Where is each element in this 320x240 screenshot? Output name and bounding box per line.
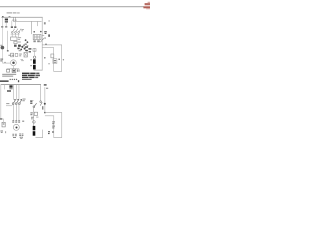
small dot [46,88,48,89]
slash tick [44,37,46,40]
T1 top dots [33,31,46,34]
switch Q2 pole 1 [12,100,15,105]
wire m [33,48,36,56]
pilot circle 2 [33,121,36,124]
terminal a [13,20,15,21]
selector box [24,52,27,57]
enclosure bottom [36,136,43,139]
wire n [34,69,43,72]
overload OL2 [18,45,21,47]
terminal stack A [12,134,16,138]
wire h [11,33,14,37]
switch Q2 pole 3 [18,100,21,105]
relay contact right [44,84,47,85]
transformer T1 [33,35,41,40]
ground mark left [0,131,3,133]
title text [7,12,20,13]
relay coil K3 [1,46,5,50]
wire drop c [30,22,33,35]
switch Q1 pole 1 [11,29,14,34]
contactor bar K2M upper [33,126,36,130]
terminal t2 [15,120,17,122]
fuse F1 [11,26,13,28]
wire bus L2 [13,20,42,23]
notes text block dark [22,73,40,79]
breaker slash [40,38,43,42]
wire drop t [32,108,35,127]
terminal t1 [12,120,14,122]
P1 hub [12,61,15,64]
contact block K1 [11,37,17,40]
label P1 [8,54,14,57]
faint dash top right [48,20,50,21]
dark dot right [44,103,46,105]
phase wire v [15,85,18,100]
faint label [21,59,24,62]
aux inner [3,123,5,124]
mid cluster dots [25,39,29,44]
label K1 [18,37,21,39]
label row left [6,102,9,105]
marks [19,54,22,57]
mark right of terminals [22,121,24,122]
faint dash under boxes [21,58,24,61]
pilot box [33,49,36,52]
left rail wire [1,17,4,63]
motor M1 [13,124,19,130]
dark dash [7,90,11,91]
node dot near bars [44,57,46,59]
meter P1 [11,60,17,66]
switch Q2 pole 2 [15,100,18,105]
label mid 2 [31,117,33,120]
node tick left [2,16,4,18]
tick above bus [18,80,19,82]
lamp circle [33,56,35,58]
node dot [45,44,46,45]
label mid [30,112,32,115]
label Q1 [21,29,24,31]
label K2 [18,41,21,44]
wire g [14,21,17,27]
tick to right [42,34,44,37]
rail right inner low [53,116,56,138]
terminal stack B [19,134,23,139]
pad a [1,26,3,28]
wire drop d [36,22,39,27]
phase wire v2 [15,105,18,121]
faint mark [36,117,38,118]
stub left [3,85,6,90]
fuse F2 [14,26,16,28]
wire rail 2 [6,31,9,51]
box b fill [13,70,15,72]
wire right top [42,44,62,47]
logo S top-right [143,2,150,10]
dot right [63,59,64,60]
switch Q4 [40,101,42,106]
aux device left [2,122,5,127]
phase wire u2 [12,105,15,121]
T1 core marks [34,36,40,37]
wire drop a [12,17,15,19]
label Q2 [22,99,25,102]
wire drop b [14,17,17,19]
switch Q3 [33,103,37,108]
faint dash mid right [48,63,50,64]
inline mark [4,62,6,63]
rail right outer low [61,112,64,137]
wire f [11,21,14,27]
junction cluster [17,45,28,52]
phase wire w [18,85,21,100]
CT dark box [9,85,12,87]
wire stub [30,99,34,102]
mark right [48,34,50,36]
tick above bus [9,15,11,18]
phase wire w2 [18,105,21,121]
right branch tick marks [30,101,32,104]
wire main right [41,17,44,70]
aux marks left of bars [30,59,32,60]
dash pair low [48,131,50,134]
terminal b [15,20,17,21]
wire under P1 [12,66,15,69]
label K3 [0,44,2,47]
Q2 top dots [14,99,22,100]
aux contact b [15,53,18,56]
wire i [14,33,17,37]
CT lower [9,88,12,89]
stub wire [5,23,8,27]
wire drop r [39,85,42,101]
M1 hub [16,127,18,129]
enclosure corner [41,130,44,138]
bus N [1,83,41,86]
wire right mid inner [45,115,54,118]
mid dark cluster [25,46,32,52]
top rule [0,6,144,7]
connector X0 [5,19,8,21]
junction dot right [44,112,46,114]
rail right inner [52,47,55,71]
wire right bottom [54,70,62,73]
dark underline [0,80,9,82]
wire bus L1 [1,16,42,19]
symbol row [10,79,18,80]
aux device lead [2,119,5,123]
switch Q1 pole 2 [15,29,18,34]
marks on rail [52,121,55,128]
contactor bar K1M upper [33,59,36,64]
wire right inner [42,46,54,49]
T1 windings [35,35,40,39]
left rail lower [0,85,2,119]
phase wire u [12,85,15,100]
terminal t3 [18,120,20,122]
wire row [7,68,20,71]
fuse F3 [44,22,46,24]
tiny post [4,131,7,133]
dot on rail [52,131,54,133]
wire row left [6,105,12,108]
cap glyph [17,69,19,71]
T1 bottom leads [33,40,39,42]
wire right bottom low [54,136,63,139]
aux contact row [11,53,14,57]
tick dark [42,106,43,109]
selector cross [24,53,27,56]
overload OL1 [14,45,17,47]
pad b [5,26,7,28]
label left [0,59,3,62]
rail end mark [0,118,2,120]
connector X0 lower [5,21,8,23]
contactor bar K2M lower [33,131,36,136]
contact box a [7,69,10,72]
capacitor C1 [53,59,57,64]
contact block K2 [14,41,17,43]
arrow head [7,50,9,51]
notes text left [2,74,16,77]
switch Q1 pole 3 [18,29,21,34]
contactor bar K1M lower [33,65,36,70]
notes line 4 [22,79,32,80]
wire link row [11,33,20,36]
contact box b [12,69,16,72]
box on rail [51,54,54,58]
mark near C1 [58,59,60,60]
rail right outer [60,45,63,72]
wire into P1 [2,62,10,65]
wire drop s [44,87,47,113]
wire right mid [45,111,62,114]
box mid [34,112,37,115]
wire j [17,33,20,37]
